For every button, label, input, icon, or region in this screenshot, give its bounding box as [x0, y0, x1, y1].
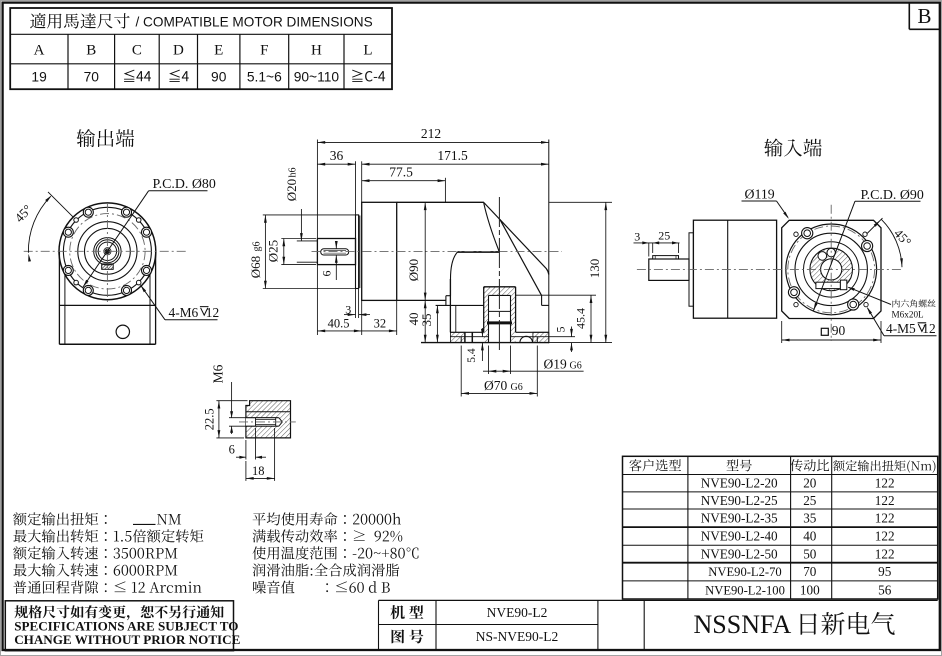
svg-text:25: 25 — [803, 493, 817, 508]
svg-text:35: 35 — [803, 510, 817, 525]
svg-text:6: 6 — [229, 442, 235, 456]
svg-text:P.C.D. Ø80: P.C.D. Ø80 — [153, 177, 216, 192]
svg-text:NS-NVE90-L2: NS-NVE90-L2 — [476, 629, 559, 644]
clamp slot — [816, 282, 841, 288]
coupling hatched disc — [810, 248, 853, 291]
svg-text:18: 18 — [252, 464, 265, 478]
svg-text:B: B — [917, 4, 931, 28]
svg-text:19: 19 — [31, 69, 47, 84]
svg-text:NVE90-L2-35: NVE90-L2-35 — [701, 510, 778, 525]
svg-text:95: 95 — [878, 564, 892, 579]
svg-text:NVE90-L2-25: NVE90-L2-25 — [701, 493, 778, 508]
corner chamfer diagonal 1 — [484, 203, 549, 275]
svg-text:56: 56 — [878, 582, 892, 597]
block left face — [449, 279, 451, 332]
4 M5 holes — [794, 232, 798, 236]
svg-text:5: 5 — [554, 327, 568, 333]
dim 212 — [317, 141, 548, 143]
selection table — [623, 456, 938, 599]
PCD 90 circle — [788, 226, 875, 313]
corner chamfer diagonal 2 — [500, 219, 542, 295]
svg-text:L: L — [363, 42, 372, 58]
svg-text:g6: g6 — [252, 242, 263, 252]
svg-text:D: D — [173, 42, 184, 58]
svg-text:NVE90-L2-40: NVE90-L2-40 — [701, 529, 778, 544]
svg-text:70: 70 — [84, 69, 100, 84]
input side body — [693, 220, 776, 318]
svg-text:90: 90 — [832, 323, 846, 338]
svg-text:Ø68: Ø68 — [248, 256, 263, 278]
svg-text:40.5: 40.5 — [328, 316, 350, 330]
svg-text:122: 122 — [875, 493, 895, 508]
svg-text:H: H — [311, 42, 322, 58]
8 flange screws — [142, 227, 152, 237]
output boss edge-on — [356, 215, 359, 289]
table headers — [629, 459, 681, 471]
svg-text:Ø20: Ø20 — [284, 179, 299, 201]
svg-text:45.4: 45.4 — [574, 308, 588, 329]
output shaft side — [649, 259, 689, 280]
45 deg dim right view — [867, 218, 883, 234]
coupling bore — [821, 259, 842, 280]
housing bottom hole — [116, 325, 129, 338]
svg-text:4-M6: 4-M6 — [169, 305, 199, 320]
svg-text:122: 122 — [875, 476, 895, 491]
left view centerlines — [24, 250, 187, 252]
svg-text:36: 36 — [330, 148, 344, 163]
output flange plate — [362, 202, 397, 300]
compatible motor dimensions table — [10, 8, 392, 89]
output shaft — [317, 239, 355, 265]
svg-text:A: A — [34, 42, 45, 58]
4 M6 tapped holes at 45deg — [74, 218, 79, 223]
svg-text:70: 70 — [803, 564, 817, 579]
svg-text:122: 122 — [875, 529, 895, 544]
motor shaft end line in bore — [489, 310, 511, 312]
shaft key — [653, 256, 679, 259]
PCD 80 bolt circle (dash-dot) — [70, 214, 145, 289]
svg-text:Ø119: Ø119 — [745, 187, 775, 202]
centerline input axis — [498, 197, 500, 352]
45 deg dimension left view — [48, 192, 73, 217]
svg-text:Ø25: Ø25 — [266, 240, 281, 262]
svg-text:NVE90-L2-100: NVE90-L2-100 — [705, 583, 785, 597]
body right face / extension — [548, 140, 550, 344]
svg-text:122: 122 — [875, 510, 895, 525]
svg-text:CHANGE WITHOUT PRIOR NOTICE: CHANGE WITHOUT PRIOR NOTICE — [14, 632, 240, 647]
svg-text:NSSNFA: NSSNFA — [694, 610, 792, 639]
band hatch areas — [450, 332, 465, 342]
svg-text:90: 90 — [211, 69, 227, 84]
intersection edge line — [458, 251, 500, 253]
svg-text:130: 130 — [587, 259, 602, 279]
input face square with corner chamfers — [782, 220, 881, 318]
svg-text:171.5: 171.5 — [437, 148, 468, 163]
detail centerline — [239, 421, 296, 423]
shaft keyway slot — [321, 249, 349, 255]
svg-text:22.5: 22.5 — [203, 408, 217, 430]
svg-text:NVE90-L2: NVE90-L2 — [487, 605, 548, 620]
dim 77.5 — [362, 180, 446, 182]
svg-text:4-M5: 4-M5 — [886, 321, 916, 336]
left view housing body — [58, 251, 60, 344]
svg-text:122: 122 — [875, 546, 895, 561]
svg-text:5.1~6: 5.1~6 — [247, 69, 282, 84]
svg-text:NVE90-L2-20: NVE90-L2-20 — [701, 476, 778, 491]
specifications notice box — [5, 601, 233, 651]
svg-text:C: C — [132, 42, 142, 58]
svg-text:50: 50 — [803, 546, 817, 561]
washer dome — [520, 336, 533, 342]
svg-text:/ COMPATIBLE MOTOR DIMENSIONS: / COMPATIBLE MOTOR DIMENSIONS — [136, 15, 373, 30]
svg-text:M6x20L: M6x20L — [892, 309, 925, 319]
svg-text:5.4: 5.4 — [466, 348, 478, 363]
svg-text:212: 212 — [421, 126, 441, 141]
detail block outline — [246, 401, 291, 438]
svg-text:NVE90-L2-50: NVE90-L2-50 — [701, 546, 778, 561]
band small holes — [464, 332, 466, 342]
gearbox cylinder body — [397, 201, 484, 203]
clamp screw side — [840, 280, 846, 290]
pocket floor left — [436, 304, 484, 306]
revision box B — [908, 3, 910, 30]
right view title 输入端 — [764, 138, 821, 156]
hex socket screw label — [893, 299, 936, 307]
svg-text:20: 20 — [803, 476, 817, 491]
clamp screw holes — [818, 252, 827, 261]
svg-text:25: 25 — [658, 228, 670, 242]
title block — [379, 599, 938, 601]
face circles — [786, 224, 877, 315]
spec text left column — [13, 512, 107, 525]
centerline horizontal — [312, 251, 563, 253]
left view title 输出端 — [77, 129, 134, 147]
pocket right side — [516, 294, 596, 296]
dim 36 — [317, 163, 355, 165]
base flange band — [450, 331, 483, 333]
boss strip — [689, 233, 693, 306]
bore white — [246, 418, 282, 427]
block left intersection curve — [451, 252, 458, 296]
svg-text:90~110: 90~110 — [294, 69, 340, 84]
svg-text:Ø19: Ø19 — [544, 357, 567, 372]
dim 171.5 — [362, 163, 549, 165]
svg-text:P.C.D. Ø90: P.C.D. Ø90 — [861, 188, 924, 203]
right view centerlines — [637, 268, 903, 270]
svg-text:40: 40 — [803, 529, 817, 544]
svg-text:3: 3 — [634, 229, 640, 243]
svg-text:Ø90: Ø90 — [406, 259, 421, 281]
output flange circles — [59, 203, 156, 300]
svg-text:6: 6 — [320, 271, 334, 277]
svg-text:35: 35 — [419, 314, 434, 327]
svg-text:h6: h6 — [288, 168, 299, 178]
4 socket screws — [802, 228, 813, 239]
svg-text:77.5: 77.5 — [389, 165, 413, 180]
table title — [30, 13, 130, 28]
clamp bar — [487, 321, 512, 324]
svg-text:Ø70: Ø70 — [484, 378, 507, 393]
hub center — [104, 248, 111, 255]
cylinder-block intersection arc — [484, 202, 499, 252]
input coupling column hatched — [484, 287, 516, 333]
svg-text:32: 32 — [374, 316, 387, 330]
svg-text:E: E — [214, 42, 223, 58]
svg-text:M6: M6 — [211, 364, 226, 383]
svg-text:G6: G6 — [570, 361, 582, 372]
svg-text:G6: G6 — [511, 382, 523, 393]
spec text right column — [253, 512, 401, 525]
svg-text:F: F — [260, 42, 268, 58]
hub keyway hatched — [102, 264, 114, 269]
svg-text:100: 100 — [800, 582, 820, 597]
svg-text:B: B — [86, 42, 96, 58]
dim square-90 — [781, 321, 783, 343]
spigot edges — [460, 337, 462, 343]
svg-text:NVE90-L2-70: NVE90-L2-70 — [708, 565, 781, 579]
output hub rings — [94, 238, 121, 265]
